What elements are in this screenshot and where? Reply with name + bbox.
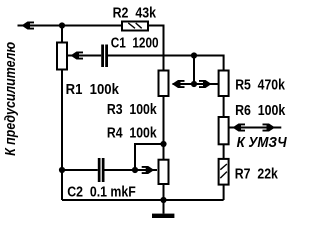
wire: ground stem: [163, 200, 165, 214]
svg-text:R4 100k: R4 100k: [107, 126, 158, 142]
resistor R3: [159, 71, 169, 97]
wire: R7 bottom to rail: [223, 185, 225, 200]
resistor R7 power hatch: [220, 164, 227, 178]
svg-text:К УМЗЧ: К УМЗЧ: [237, 135, 288, 151]
wire: R1 bottom lead down to rail: [61, 70, 63, 201]
resistor R6: [219, 117, 229, 144]
arrow: R6 wiper: [233, 124, 246, 132]
svg-text:К предусилителю: К предусилителю: [3, 42, 19, 156]
wire: R4 bottom to ground rail: [163, 185, 165, 201]
node: junction branch / C2 line: [132, 167, 138, 173]
wire: R6 wiper out to УМЗЧ: [229, 127, 281, 129]
wire: R2 right down to R3 top: [149, 26, 164, 70]
arrow: R4 wiper: [142, 166, 155, 174]
wire: top rail from output arrow to R2 left: [18, 25, 122, 27]
arrow: wiper into R3: [172, 80, 185, 88]
wire: branch R3/R4 junction to C2 line: [135, 144, 164, 170]
capacitor C2 plates: [98, 158, 101, 182]
node: junction top rail / R1: [59, 22, 65, 28]
svg-text:C1 1200: C1 1200: [111, 35, 159, 51]
wire: R3 bottom to R4 top: [163, 97, 165, 160]
wire: R6 bottom to R7 top: [223, 145, 225, 160]
wire: C1 right plate to corner down to R5 top: [108, 56, 224, 70]
svg-text:R3 100k: R3 100k: [107, 102, 158, 118]
wire: R1 wiper to C1 left plate: [68, 55, 101, 57]
resistor R2: [122, 22, 148, 31]
resistor R7: [219, 159, 229, 185]
svg-text:C2 0.1 mkF: C2 0.1 mkF: [67, 184, 136, 200]
ground: [152, 214, 174, 218]
node: junction R3/R4: [160, 141, 166, 147]
arrow: output to preamp: [22, 22, 35, 30]
wire: wiper feed vertical: [193, 56, 195, 85]
node: junction wiper line: [191, 81, 197, 87]
resistor R1 (potentiometer body): [57, 43, 67, 70]
wire: C2 left plate to R1 column: [62, 169, 98, 171]
wire: C2 right plate to R4 wiper: [105, 169, 158, 171]
svg-text:R5 470k: R5 470k: [235, 77, 285, 93]
wire: double wiper horizontal R3-R5: [173, 83, 219, 85]
node: junction C1 line / wiper feed: [191, 52, 197, 58]
svg-text:R2 43k: R2 43k: [113, 5, 157, 21]
resistor R4: [159, 160, 169, 184]
resistor R5: [219, 71, 229, 97]
resistor R2 power hatch: [128, 23, 141, 28]
wire: bottom ground rail: [62, 199, 224, 201]
node: junction ground rail: [160, 197, 166, 203]
svg-text:R7 22k: R7 22k: [235, 166, 279, 182]
capacitor C1 plates: [101, 45, 104, 68]
arrow: output to УМЗЧ: [263, 124, 276, 132]
node: junction R1 column / C2 line: [59, 167, 65, 173]
svg-text:R1 100k: R1 100k: [66, 82, 120, 98]
svg-text:R6 100k: R6 100k: [235, 103, 286, 119]
arrow: R1 wiper: [71, 52, 84, 60]
arrow: wiper into R5: [199, 80, 212, 88]
wire: R1 top lead: [61, 26, 63, 43]
wire: R5 bottom to R6 top: [223, 97, 225, 118]
